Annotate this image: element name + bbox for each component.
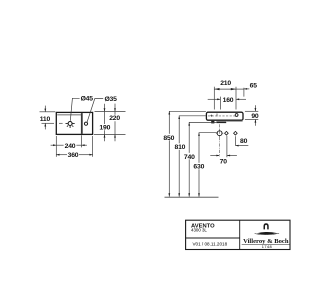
logo arch icon [264, 223, 269, 229]
dim 240 bottom [51, 135, 87, 157]
svg-text:Ø35: Ø35 [104, 96, 117, 103]
front view: hidden centre line [208, 115, 238, 117]
svg-text:220: 220 [109, 115, 120, 122]
drain outlet Ø45 [66, 122, 75, 129]
top view: deck divider [81, 113, 83, 134]
top view: basin outer rim [56, 112, 92, 134]
fixing diamond 1 [225, 131, 229, 135]
fixing diamond 2 [234, 131, 238, 135]
height dim 630 [192, 133, 217, 197]
top view: inner basin back edge [57, 114, 81, 116]
label Ø35 with leader [87, 96, 117, 122]
svg-text:4300 3L: 4300 3L [191, 227, 207, 232]
svg-text:360: 360 [68, 152, 79, 159]
front view: waste bar [216, 121, 226, 123]
title block: horizontal divider [186, 237, 240, 239]
logo rule [242, 243, 290, 245]
svg-text:V01 / 08.11.2018: V01 / 08.11.2018 [192, 241, 227, 246]
svg-text:70: 70 [220, 158, 228, 165]
svg-text:Ø45: Ø45 [81, 96, 94, 103]
dim 220 right [109, 104, 120, 142]
dim 360 bottom [56, 136, 92, 159]
dim 210 [214, 80, 236, 109]
height dim 810 [173, 116, 206, 197]
logo swoosh [255, 232, 280, 235]
svg-text:160: 160 [223, 97, 234, 104]
front view: drain fitting block [211, 121, 214, 124]
svg-text:1748: 1748 [262, 244, 272, 249]
dim 110 left [40, 106, 56, 130]
svg-text:110: 110 [40, 116, 51, 123]
fixing hole circle [216, 130, 223, 137]
dim 190 right [94, 104, 126, 141]
floor line [165, 196, 219, 198]
front view: overflow plus mark [210, 115, 212, 117]
front view: basin body [206, 112, 243, 120]
dim 80 [235, 136, 248, 146]
svg-text:630: 630 [193, 164, 204, 171]
title block: vertical divider [239, 220, 241, 249]
tap hole Ø35 [84, 122, 87, 125]
svg-text:190: 190 [99, 124, 110, 131]
svg-text:240: 240 [65, 143, 76, 150]
label Ø45 with leader [70, 96, 93, 121]
front view: back lip line [226, 121, 242, 123]
top view: overflow tick [59, 122, 63, 124]
height dim 740 [183, 122, 217, 196]
svg-text:80: 80 [240, 138, 248, 145]
dim 160 [208, 97, 246, 110]
dim 70 [210, 136, 237, 166]
svg-text:850: 850 [163, 135, 174, 142]
height dim 850 [162, 111, 206, 197]
drain axis centreline [219, 124, 221, 156]
front view: interior tick [216, 114, 218, 117]
front view: tap hole side [235, 114, 238, 117]
svg-text:65: 65 [250, 82, 258, 89]
svg-text:210: 210 [220, 80, 231, 87]
title block: outer frame [186, 220, 290, 249]
dim 90 [245, 105, 259, 126]
svg-text:740: 740 [184, 154, 195, 161]
svg-text:90: 90 [251, 113, 259, 120]
dim 65 [236, 82, 257, 96]
svg-text:810: 810 [175, 144, 186, 151]
